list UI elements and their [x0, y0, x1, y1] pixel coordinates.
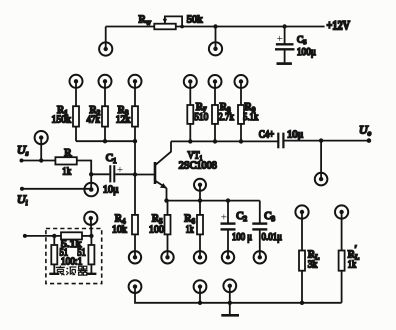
node input junction	[89, 172, 93, 176]
resistor R	[55, 157, 76, 164]
ground	[221, 303, 239, 316]
svg-text:C4+: C4+	[259, 130, 275, 141]
label 2SC1008	[179, 160, 217, 171]
svg-text:50k: 50k	[187, 14, 203, 26]
label C1	[106, 152, 117, 165]
label 100:1	[61, 256, 83, 267]
svg-text:2SC1008: 2SC1008	[179, 160, 217, 171]
label R3 12k	[116, 104, 131, 126]
svg-text:2.7k: 2.7k	[218, 111, 234, 123]
svg-text:510: 510	[194, 111, 209, 123]
terminal ground row below C2	[223, 279, 236, 292]
wire R to C1 node	[77, 161, 91, 175]
attenuator dashed box	[46, 229, 102, 284]
label R2 47k	[87, 104, 101, 126]
label 10u below C1	[103, 184, 119, 196]
transistor VT1	[135, 141, 171, 200]
label 100u	[297, 47, 316, 58]
svg-text:C5: C5	[297, 36, 306, 47]
svg-text:Uo: Uo	[359, 123, 372, 138]
terminal ground row below R4	[129, 280, 142, 293]
terminal above R2	[99, 75, 112, 88]
terminal emitter test point	[194, 179, 206, 201]
svg-text:3k: 3k	[308, 259, 318, 271]
svg-text:100: 100	[149, 224, 164, 236]
label attenuator (Chinese)	[56, 266, 88, 276]
label R 1k	[62, 147, 72, 177]
label C3	[264, 210, 275, 223]
potentiometer Rw	[154, 16, 184, 29]
resistor R1	[73, 81, 79, 141]
wire bottom ground rail	[135, 286, 342, 305]
wire top supply rail left segment	[106, 26, 155, 28]
label 51 left	[60, 248, 69, 259]
svg-text:C3: C3	[264, 210, 275, 223]
svg-text:150k: 150k	[52, 113, 72, 125]
label RL2 1k	[348, 244, 360, 271]
resistor 51 left	[51, 236, 57, 273]
svg-text:5.1k: 5.1k	[243, 111, 259, 123]
svg-text:10k: 10k	[112, 224, 127, 236]
terminal above R8	[209, 75, 222, 88]
svg-text:R: R	[64, 147, 72, 159]
svg-text:100:1: 100:1	[61, 256, 83, 267]
terminal below C3	[254, 251, 266, 263]
capacitor C5	[275, 27, 295, 64]
label C5	[297, 36, 306, 47]
resistor R7	[187, 82, 193, 142]
terminal above R1	[70, 75, 83, 88]
terminal below top rail middle	[209, 42, 222, 55]
svg-text:Us: Us	[17, 143, 29, 158]
label Uo	[359, 123, 372, 138]
label 100u below C2	[232, 232, 252, 243]
wire attenuator input	[23, 234, 61, 238]
wire base vertical line	[134, 141, 136, 215]
wire attenuator output node	[82, 218, 94, 238]
label R8 2.7k	[218, 101, 234, 123]
terminal output test point	[315, 173, 328, 186]
wire Ui input	[20, 187, 91, 191]
wire output	[283, 138, 371, 143]
label VT1	[188, 150, 203, 162]
svg-text:1k: 1k	[62, 166, 71, 178]
label Ui	[17, 192, 28, 207]
resistor 51 right	[88, 236, 94, 273]
capacitor C1	[91, 164, 135, 183]
terminal attenuator output	[84, 212, 97, 225]
label Us	[17, 143, 29, 158]
terminal above RL	[295, 205, 308, 218]
svg-text:C1: C1	[106, 152, 117, 165]
resistor R6	[197, 201, 203, 258]
svg-text:+: +	[221, 212, 227, 224]
svg-text:12k: 12k	[116, 113, 131, 125]
wire down to terminal below Rw left	[105, 27, 107, 50]
terminal Us input	[35, 131, 48, 161]
label 0.01u below C3	[262, 232, 283, 243]
net +12V	[327, 19, 351, 33]
capacitor C4	[278, 133, 283, 149]
svg-text:Ui: Ui	[17, 192, 28, 207]
label 5.1k	[61, 239, 82, 250]
terminal above R3	[129, 75, 142, 88]
svg-text:Rw: Rw	[139, 13, 152, 26]
label Rw	[139, 13, 152, 26]
terminal Ui test point	[84, 174, 98, 196]
terminal above R9	[235, 75, 248, 88]
ground bar attenuator left	[49, 273, 59, 275]
label R9 5.1k	[243, 101, 259, 123]
svg-text:+: +	[117, 164, 123, 176]
resistor R9	[238, 82, 244, 142]
svg-text:1k: 1k	[186, 224, 194, 236]
label R1 150k	[52, 104, 72, 126]
svg-text:10μ: 10μ	[287, 129, 303, 140]
terminal below R5	[161, 251, 173, 263]
label RL 3k	[308, 249, 320, 271]
resistor RL2	[339, 212, 345, 303]
label 51 right	[77, 248, 86, 259]
resistor 5.1k attenuator series	[61, 232, 82, 239]
capacitor C2	[221, 201, 236, 258]
resistor R3	[132, 81, 138, 141]
terminal below R6	[194, 251, 206, 263]
resistor RL	[299, 212, 305, 303]
svg-text:1k: 1k	[348, 259, 357, 271]
terminal below top rail left	[99, 42, 112, 55]
terminal ground row below R6	[194, 280, 207, 293]
label R4 10k	[112, 213, 127, 236]
svg-text:C2: C2	[236, 210, 247, 223]
wire top supply rail right segment	[176, 26, 325, 28]
svg-text:+: +	[277, 33, 283, 45]
node base junction	[133, 172, 137, 176]
terminal below R4	[129, 251, 141, 263]
svg-text:10μ: 10μ	[103, 184, 119, 196]
svg-text:100μ: 100μ	[297, 47, 316, 58]
resistor R4	[132, 215, 138, 257]
ground bar attenuator right	[86, 273, 96, 275]
capacitor C3	[252, 201, 267, 258]
wire emitter rail	[164, 198, 259, 202]
label C4+	[259, 130, 275, 141]
svg-text:100 μ: 100 μ	[232, 232, 252, 243]
label R5 100	[149, 213, 164, 236]
node junction on top rail	[213, 24, 217, 49]
svg-text:+12V: +12V	[327, 19, 351, 33]
label 10u after C4	[287, 129, 303, 140]
svg-text:47k: 47k	[87, 113, 101, 125]
label R7 510	[194, 101, 209, 123]
label C2	[236, 210, 247, 223]
label 50k	[187, 14, 203, 26]
wire collector rail	[171, 139, 278, 143]
resistor R8	[212, 82, 218, 142]
wire Us input	[20, 158, 56, 162]
wire base bias rail	[76, 139, 137, 143]
terminal above R7	[184, 75, 197, 88]
svg-text:0.01μ: 0.01μ	[262, 232, 283, 243]
terminal above RL2	[335, 205, 348, 218]
resistor R5	[165, 201, 171, 258]
label R6 1k	[184, 213, 195, 236]
wire down to output terminal	[320, 141, 322, 180]
node junction C5 tap	[282, 24, 286, 28]
resistor R2	[102, 81, 108, 141]
terminal below C2	[222, 251, 234, 263]
